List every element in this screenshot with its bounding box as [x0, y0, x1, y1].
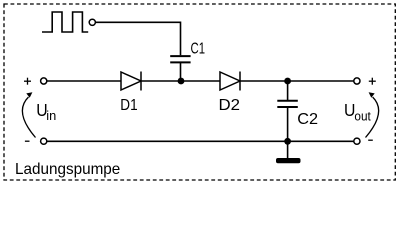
- svg-text:Ladungspumpe: Ladungspumpe: [15, 161, 120, 178]
- svg-text:C1: C1: [191, 40, 206, 57]
- svg-text:out: out: [354, 109, 371, 124]
- svg-text:C2: C2: [297, 111, 318, 128]
- svg-text:in: in: [46, 108, 56, 123]
- svg-text:D2: D2: [219, 97, 241, 114]
- svg-text:D1: D1: [120, 97, 137, 114]
